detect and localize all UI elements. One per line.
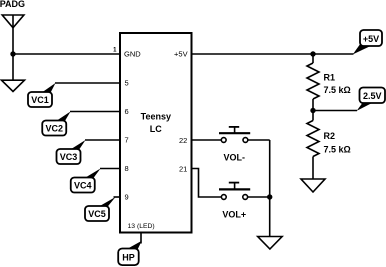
wire: pin 13 down from U1	[140, 233, 142, 244]
svg-text:13 (LED): 13 (LED)	[128, 223, 155, 230]
wire: U1 pin 22 to S1	[192, 139, 222, 141]
wire: pin 7	[85, 139, 120, 141]
svg-text:7.5 kΩ: 7.5 kΩ	[324, 85, 351, 95]
ground symbol (under R2)	[301, 179, 325, 192]
wire: PADG symbol down to junction and ground	[12, 28, 14, 80]
junction dot +5V/R1	[310, 51, 315, 56]
svg-text:VC4: VC4	[74, 181, 92, 191]
svg-text:21: 21	[179, 164, 187, 173]
net flag HP	[118, 241, 142, 265]
svg-text:VOL+: VOL+	[222, 209, 246, 219]
op IC U1 Teensy LC body	[120, 33, 192, 233]
svg-text:GND: GND	[124, 50, 141, 59]
net flag VC4	[71, 169, 101, 193]
wire: S2 to right rail	[248, 196, 270, 198]
svg-text:7.5 kΩ: 7.5 kΩ	[324, 144, 351, 154]
junction dot R1/R2/2.5V	[310, 108, 315, 113]
svg-text:6: 6	[125, 107, 129, 116]
svg-text:R1: R1	[324, 72, 336, 82]
junction dot	[10, 51, 15, 56]
svg-text:VC2: VC2	[45, 124, 63, 134]
svg-text:PADG: PADG	[0, 0, 25, 9]
svg-text:+5V: +5V	[174, 50, 188, 59]
svg-text:2.5V: 2.5V	[363, 91, 382, 101]
wire: pin 9	[114, 196, 121, 198]
wire: U1 pin 21 jog down to S2	[192, 169, 222, 198]
pushbutton S2 VOL+	[219, 183, 250, 200]
svg-text:8: 8	[125, 164, 129, 173]
svg-text:HP: HP	[122, 253, 135, 263]
svg-text:VC5: VC5	[88, 209, 106, 219]
wire: divider tap to 2.5V flag	[313, 110, 357, 112]
svg-text:5: 5	[125, 79, 129, 88]
wire: right rail down to ground	[269, 140, 271, 237]
svg-text:VOL-: VOL-	[224, 152, 246, 162]
net flag VC2	[42, 112, 70, 136]
net flag 2.5V	[357, 88, 385, 111]
wire: pin 8	[100, 168, 120, 170]
net flag VC1	[28, 83, 56, 107]
svg-text:R2: R2	[324, 131, 336, 141]
svg-text:9: 9	[125, 193, 129, 202]
resistor R1	[307, 54, 319, 111]
svg-text:Teensy: Teensy	[141, 112, 171, 122]
svg-text:22: 22	[179, 136, 187, 145]
resistor R2	[307, 111, 319, 180]
wire: pin 6	[70, 111, 120, 113]
svg-text:+5V: +5V	[363, 34, 379, 44]
wire: junction to U1 pin 1 (GND)	[13, 53, 120, 55]
svg-text:VC1: VC1	[31, 95, 49, 105]
net flag VC3	[57, 140, 86, 164]
wire: S1 to right rail	[248, 139, 270, 141]
junction dot right rail	[267, 194, 272, 199]
pushbutton S1 VOL-	[219, 127, 250, 143]
wire: +5V rail from U1 to flag	[192, 53, 354, 55]
wire: pin 5	[55, 82, 120, 84]
antenna/pad symbol PADG	[2, 15, 24, 28]
net flag +5V	[353, 30, 382, 54]
ground symbol (under buttons)	[258, 237, 282, 250]
svg-text:LC: LC	[150, 124, 162, 134]
ground symbol (left)	[2, 80, 25, 91]
svg-text:VC3: VC3	[60, 152, 78, 162]
svg-text:7: 7	[125, 136, 129, 145]
net flag VC5	[85, 197, 116, 221]
